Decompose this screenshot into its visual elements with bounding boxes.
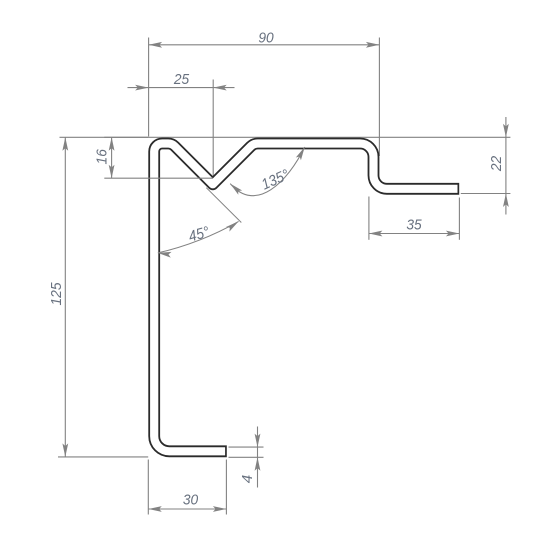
svg-text:125: 125 <box>48 282 65 305</box>
svg-text:22: 22 <box>488 155 505 172</box>
svg-text:90: 90 <box>258 29 274 46</box>
svg-text:4: 4 <box>239 475 256 483</box>
svg-text:25: 25 <box>173 71 190 88</box>
svg-text:16: 16 <box>94 149 111 165</box>
svg-text:35: 35 <box>406 217 422 234</box>
svg-text:30: 30 <box>183 492 199 509</box>
